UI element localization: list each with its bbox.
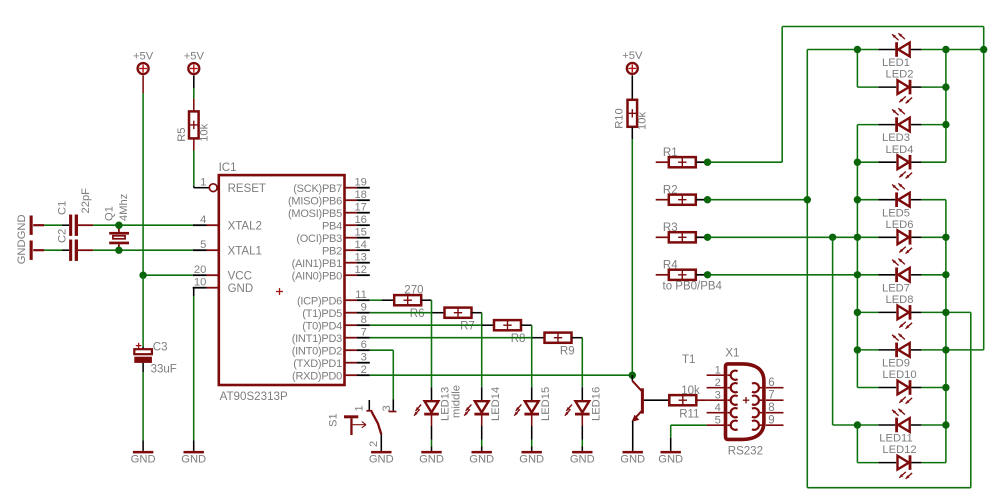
svg-text:9: 9 bbox=[361, 302, 367, 314]
junction LED9 left bbox=[854, 346, 861, 353]
wire LED1 row right bbox=[921, 49, 983, 51]
wire LED11 row bbox=[857, 424, 946, 426]
svg-text:1: 1 bbox=[715, 365, 721, 377]
svg-text:GND: GND bbox=[620, 454, 645, 466]
svg-text:LED15: LED15 bbox=[540, 387, 552, 421]
svg-text:XTAL2: XTAL2 bbox=[228, 220, 262, 232]
junction LED1 right bbox=[942, 46, 949, 53]
svg-text:GND: GND bbox=[131, 454, 156, 466]
svg-text:R11: R11 bbox=[679, 409, 699, 421]
svg-text:+5V: +5V bbox=[133, 50, 154, 62]
svg-text:LED7: LED7 bbox=[882, 282, 910, 294]
IC1 pin 5 XTAL1 bbox=[193, 239, 262, 257]
svg-text:8: 8 bbox=[768, 402, 774, 414]
svg-text:R5: R5 bbox=[176, 127, 188, 141]
LED10 bbox=[878, 369, 921, 404]
svg-text:5: 5 bbox=[715, 415, 721, 427]
power +5V P3 bbox=[622, 50, 643, 100]
svg-text:(TXD)PD1: (TXD)PD1 bbox=[293, 358, 342, 370]
wire R5 to RESET bbox=[194, 151, 209, 188]
svg-text:12: 12 bbox=[354, 264, 366, 276]
svg-text:17: 17 bbox=[354, 202, 366, 214]
junction VCC node bbox=[139, 272, 146, 279]
svg-text:RS232: RS232 bbox=[728, 445, 763, 457]
LED13 middle bbox=[414, 385, 463, 451]
svg-text:GND: GND bbox=[419, 454, 444, 466]
X1 pin 4 bbox=[707, 402, 738, 417]
wire R6 to LED13 bbox=[421, 300, 431, 387]
resistor R4 bbox=[656, 260, 723, 293]
svg-text:19: 19 bbox=[354, 177, 366, 189]
LED4 bbox=[878, 144, 921, 179]
svg-text:270: 270 bbox=[404, 284, 423, 296]
wire GND to C1 bbox=[44, 224, 69, 226]
wire pair1 left link bbox=[856, 50, 858, 88]
IC1 pin 16 PB4 bbox=[322, 214, 370, 232]
IC1 pin 17 (MOSI)PB5 bbox=[288, 202, 370, 220]
junction LED6 left bbox=[854, 234, 861, 241]
svg-text:R7: R7 bbox=[460, 320, 475, 332]
svg-text:GND: GND bbox=[16, 214, 28, 239]
svg-text:3: 3 bbox=[381, 405, 393, 411]
svg-text:6: 6 bbox=[361, 339, 367, 351]
ground GND under IC bbox=[184, 451, 204, 454]
capacitor C2 bbox=[56, 229, 78, 261]
svg-text:IC1: IC1 bbox=[219, 162, 237, 174]
svg-text:4: 4 bbox=[200, 214, 206, 226]
ground GND under C3 bbox=[133, 451, 153, 454]
svg-text:1: 1 bbox=[200, 177, 206, 189]
junction LED7 right bbox=[942, 271, 949, 278]
svg-text:3: 3 bbox=[715, 390, 721, 402]
LED8 bbox=[878, 294, 921, 329]
svg-text:LED1: LED1 bbox=[882, 57, 910, 69]
LED11 bbox=[878, 409, 921, 445]
ground GND under S1 bbox=[371, 451, 391, 454]
resistor R5 bbox=[176, 99, 211, 151]
junction after R4 bbox=[704, 271, 711, 278]
IC1 pin 2 (RXD)PD0 bbox=[292, 364, 370, 382]
svg-text:(INT1)PD3: (INT1)PD3 bbox=[292, 333, 342, 345]
LED6 bbox=[878, 219, 921, 254]
wire LED5 row bbox=[857, 199, 946, 201]
IC1 pin 12 (AIN0)PB0 bbox=[292, 264, 370, 282]
svg-text:7: 7 bbox=[361, 327, 367, 339]
svg-text:(INT0)PD2: (INT0)PD2 bbox=[292, 345, 342, 357]
wire pin2 RXD row to T1 node bbox=[370, 374, 633, 376]
svg-text:middle: middle bbox=[451, 385, 463, 418]
wire R10 to T1 node bbox=[631, 127, 633, 375]
wire LED1 row left bbox=[807, 49, 878, 51]
svg-text:to PB0/PB4: to PB0/PB4 bbox=[663, 281, 723, 293]
resistor R9 bbox=[545, 333, 575, 358]
wire VCC node to C3 bbox=[142, 275, 144, 346]
ground GND under LED13 bbox=[421, 451, 441, 454]
LED15 bbox=[514, 387, 552, 451]
X1 pin 6 bbox=[752, 377, 784, 392]
ground GND under X1 bbox=[661, 451, 681, 454]
svg-text:+5V: +5V bbox=[622, 50, 643, 62]
junction after R1 bbox=[704, 159, 711, 166]
junction after R3 bbox=[704, 234, 711, 241]
wire left bus LED3-LED10 bbox=[856, 125, 858, 388]
ground GND under LED14 bbox=[472, 451, 492, 454]
wire pin6 to S1 bbox=[370, 350, 394, 411]
svg-text:C2: C2 bbox=[56, 229, 68, 243]
wire LED2 row right bbox=[921, 86, 946, 88]
svg-text:LED11: LED11 bbox=[879, 433, 912, 445]
svg-text:(MISO)PB6: (MISO)PB6 bbox=[288, 195, 342, 207]
wire C3 to ground bbox=[142, 363, 144, 451]
svg-text:(T1)PD5: (T1)PD5 bbox=[302, 308, 342, 320]
svg-text:R8: R8 bbox=[511, 333, 526, 345]
ground GND under LED15 bbox=[522, 451, 542, 454]
svg-text:(OCI)PB3: (OCI)PB3 bbox=[296, 233, 342, 245]
svg-text:R6: R6 bbox=[410, 308, 425, 320]
svg-text:R3: R3 bbox=[663, 222, 678, 234]
ground symbol for C1 bbox=[16, 214, 44, 239]
wire pin7 to R9 bbox=[370, 337, 545, 339]
svg-text:LED14: LED14 bbox=[490, 387, 502, 421]
wire R2 riser bbox=[708, 50, 808, 488]
LED1 bbox=[878, 33, 921, 69]
wire R4 row to LED column bbox=[708, 274, 858, 276]
X1 pin 1 bbox=[707, 365, 738, 380]
svg-text:XTAL1: XTAL1 bbox=[228, 245, 262, 257]
svg-text:(ICP)PD6: (ICP)PD6 bbox=[297, 295, 342, 307]
X1 pin 3 bbox=[707, 390, 738, 405]
svg-text:10k: 10k bbox=[636, 112, 648, 130]
svg-text:R4: R4 bbox=[663, 260, 678, 272]
junction LED9 right bbox=[942, 346, 949, 353]
svg-text:+5V: +5V bbox=[184, 50, 205, 62]
svg-text:LED4: LED4 bbox=[886, 144, 914, 156]
wire R7 to LED14 bbox=[472, 313, 482, 388]
junction LED11 left bbox=[854, 421, 861, 428]
svg-text:(RXD)PD0: (RXD)PD0 bbox=[292, 370, 342, 382]
LED5 bbox=[878, 183, 921, 219]
wire R11 to X1 pin3 bbox=[696, 399, 706, 401]
svg-text:10k: 10k bbox=[199, 123, 211, 141]
LED9 bbox=[878, 334, 921, 370]
wire right bus LED1-LED4 bbox=[945, 50, 947, 163]
ground GND under LED16 bbox=[572, 451, 592, 454]
wire LED3 row bbox=[857, 124, 946, 126]
svg-text:2: 2 bbox=[715, 377, 721, 389]
svg-text:PB2: PB2 bbox=[322, 245, 342, 257]
IC1 pin 6 (INT0)PD2 bbox=[292, 339, 370, 357]
resistor R6 270 bbox=[394, 284, 424, 320]
wire +5V P2 to R5 bbox=[193, 88, 195, 99]
wire IC GND pin to ground bbox=[193, 288, 195, 451]
svg-text:R1: R1 bbox=[663, 147, 678, 159]
svg-text:(T0)PD4: (T0)PD4 bbox=[302, 320, 342, 332]
svg-text:LED2: LED2 bbox=[886, 69, 914, 81]
svg-text:4: 4 bbox=[715, 402, 721, 414]
svg-text:C1: C1 bbox=[56, 201, 68, 215]
svg-text:GND: GND bbox=[519, 454, 544, 466]
svg-text:AT90S2313P: AT90S2313P bbox=[220, 390, 288, 403]
junction LED5 left bbox=[854, 196, 861, 203]
IC1 pin 13 (AIN1)PB1 bbox=[292, 252, 370, 270]
IC1 pin 14 PB2 bbox=[322, 239, 370, 257]
wire LED10 row bbox=[857, 387, 946, 389]
svg-text:LED16: LED16 bbox=[591, 387, 603, 421]
op-amp IC1 AT90S2313P microcontroller bbox=[219, 162, 345, 403]
ground symbol for C2 bbox=[16, 239, 44, 264]
wire LED12 row bbox=[857, 462, 946, 464]
wire R3 row to LED column bbox=[708, 236, 858, 238]
wire pin11 to R6 bbox=[370, 299, 394, 301]
svg-text:(AIN1)PB1: (AIN1)PB1 bbox=[292, 258, 342, 270]
IC1 pin 11 (ICP)PD6 bbox=[297, 289, 370, 307]
LED16 bbox=[565, 387, 603, 451]
resistor R10 10k bbox=[613, 100, 648, 130]
svg-text:T1: T1 bbox=[682, 354, 695, 366]
svg-text:GND: GND bbox=[658, 454, 683, 466]
junction LED7 left bbox=[854, 271, 861, 278]
wire +5V P1 to VCC node bbox=[142, 93, 144, 275]
wire R8 to LED15 bbox=[521, 325, 532, 387]
wire LED9 row bbox=[857, 349, 983, 351]
IC1 pin 15 (OCI)PB3 bbox=[296, 227, 369, 245]
wire right outer bus bbox=[983, 27, 985, 350]
svg-text:18: 18 bbox=[354, 189, 366, 201]
svg-text:LED5: LED5 bbox=[882, 207, 910, 219]
svg-text:33uF: 33uF bbox=[151, 363, 177, 375]
junction LED8 right bbox=[942, 309, 949, 316]
junction after R2 bbox=[704, 196, 711, 203]
svg-text:9: 9 bbox=[768, 415, 774, 427]
wire LED4 row bbox=[857, 161, 946, 163]
svg-text:(SCK)PB7: (SCK)PB7 bbox=[293, 183, 342, 195]
IC1 pin 4 XTAL2 bbox=[193, 214, 262, 232]
svg-text:5: 5 bbox=[200, 239, 206, 251]
svg-text:10: 10 bbox=[194, 277, 206, 289]
svg-text:S1: S1 bbox=[328, 413, 340, 427]
resistor R2 bbox=[656, 184, 705, 204]
svg-text:LED6: LED6 bbox=[886, 219, 914, 231]
X1 pin 2 bbox=[707, 377, 738, 392]
resistor R8 bbox=[494, 320, 525, 345]
junction crystal bottom bbox=[115, 247, 122, 254]
wire R1 riser bbox=[708, 27, 984, 163]
X1 pin 8 bbox=[752, 402, 784, 417]
ground GND under T1 bbox=[623, 451, 643, 454]
svg-text:15: 15 bbox=[354, 227, 366, 239]
svg-text:LED8: LED8 bbox=[886, 294, 914, 306]
junction LED6 right bbox=[942, 234, 949, 241]
junction LED8 left bbox=[854, 309, 861, 316]
svg-text:LED10: LED10 bbox=[882, 369, 916, 381]
wire LED8 row bbox=[857, 311, 970, 313]
resistor R3 bbox=[656, 222, 705, 242]
wire GND to C2 bbox=[44, 249, 69, 251]
IC1 pin 9 (T1)PD5 bbox=[302, 302, 370, 320]
power +5V P1 bbox=[133, 50, 154, 93]
svg-text:PB4: PB4 bbox=[322, 220, 342, 232]
LED12 bbox=[878, 444, 921, 479]
svg-text:Q1: Q1 bbox=[104, 206, 116, 221]
crystal Q1 4Mhz bbox=[104, 193, 130, 250]
junction R3 branch bbox=[829, 234, 836, 241]
LED2 bbox=[878, 69, 921, 104]
connector X1 RS232 bbox=[725, 348, 764, 458]
LED7 bbox=[878, 259, 921, 295]
svg-text:16: 16 bbox=[354, 214, 366, 226]
svg-text:1: 1 bbox=[354, 405, 366, 411]
IC1 pin 1 RESET bubble bbox=[200, 177, 266, 195]
svg-text:6: 6 bbox=[768, 377, 774, 389]
svg-text:2: 2 bbox=[361, 364, 367, 376]
svg-text:2: 2 bbox=[368, 441, 380, 447]
svg-text:LED9: LED9 bbox=[882, 358, 910, 370]
svg-text:13: 13 bbox=[354, 252, 366, 264]
switch S1 bbox=[328, 400, 397, 451]
wire LED2 row left bbox=[857, 86, 878, 88]
resistor R1 bbox=[656, 147, 705, 167]
junction LED11 right bbox=[942, 421, 949, 428]
wire LED6 row bbox=[857, 236, 946, 238]
IC1 pin 18 (MISO)PB6 bbox=[288, 189, 370, 207]
wire bottom return bbox=[807, 312, 971, 487]
power +5V P2 bbox=[184, 50, 205, 88]
junction LED1 outer bbox=[980, 46, 987, 53]
wire pair6 left link bbox=[856, 425, 858, 463]
junction LED10 right bbox=[942, 384, 949, 391]
svg-text:GND: GND bbox=[228, 283, 254, 295]
capacitor C1 22pF bbox=[56, 188, 92, 236]
wire C2 to XTAL1 net bbox=[78, 249, 193, 251]
X1 pin 9 bbox=[752, 415, 784, 430]
svg-text:R10: R10 bbox=[613, 108, 625, 129]
wire X1 pin5 to ground bbox=[671, 425, 707, 451]
junction LED4 left bbox=[854, 159, 861, 166]
svg-text:22pF: 22pF bbox=[80, 188, 92, 214]
svg-text:R9: R9 bbox=[560, 345, 575, 357]
svg-text:20: 20 bbox=[194, 264, 206, 276]
svg-text:8: 8 bbox=[361, 314, 367, 326]
svg-text:10k: 10k bbox=[681, 385, 700, 397]
svg-text:7: 7 bbox=[768, 390, 774, 402]
junction LED1 left bbox=[854, 46, 861, 53]
IC1 pin 8 (T0)PD4 bbox=[302, 314, 370, 332]
svg-text:(AIN0)PB0: (AIN0)PB0 bbox=[292, 270, 342, 282]
LED14 bbox=[464, 387, 502, 451]
IC1 pin 20 VCC bbox=[193, 264, 252, 282]
wire VCC row bbox=[143, 274, 193, 276]
svg-text:X1: X1 bbox=[725, 348, 739, 360]
resistor R7 bbox=[445, 308, 475, 333]
svg-text:GND: GND bbox=[469, 454, 494, 466]
svg-text:14: 14 bbox=[354, 239, 366, 251]
IC1 pin 7 (INT1)PD3 bbox=[292, 327, 370, 345]
IC1 pin 10 GND bbox=[193, 277, 253, 295]
wire R3 branch down to LED11 row bbox=[833, 237, 858, 425]
IC1 pin 19 (SCK)PB7 bbox=[293, 177, 370, 195]
transistor T1 bbox=[632, 354, 696, 451]
svg-text:GND: GND bbox=[369, 454, 394, 466]
LED3 bbox=[878, 108, 921, 144]
wire LED7 row bbox=[857, 274, 946, 276]
IC1 pin 3 (TXD)PD1 bbox=[293, 352, 370, 370]
svg-text:4Mhz: 4Mhz bbox=[118, 193, 130, 221]
svg-text:LED12: LED12 bbox=[882, 444, 916, 456]
X1 pin 5 bbox=[707, 415, 738, 430]
junction LED2 right bbox=[942, 83, 949, 90]
X1 pin 7 bbox=[752, 390, 784, 405]
svg-text:C3: C3 bbox=[153, 341, 168, 353]
svg-text:GND: GND bbox=[181, 454, 206, 466]
junction LED3 right bbox=[942, 121, 949, 128]
svg-text:LED3: LED3 bbox=[882, 132, 910, 144]
svg-text:GND: GND bbox=[570, 454, 595, 466]
svg-text:R2: R2 bbox=[663, 184, 678, 196]
svg-text:RESET: RESET bbox=[228, 183, 266, 195]
junction T1 collector node bbox=[629, 372, 636, 379]
svg-text:3: 3 bbox=[361, 352, 367, 364]
svg-text:GND: GND bbox=[16, 239, 28, 264]
wire pin8 to R8 bbox=[370, 324, 494, 326]
wire pin9 to R7 bbox=[370, 312, 445, 314]
junction R2 riser bbox=[804, 196, 811, 203]
wire C1 to XTAL2 net bbox=[78, 224, 193, 226]
resistor R11 10k bbox=[669, 385, 700, 421]
svg-text:VCC: VCC bbox=[228, 270, 252, 282]
svg-text:11: 11 bbox=[355, 289, 367, 301]
capacitor C3 33uF bbox=[134, 341, 177, 375]
wire right bus LED5-LED12 bbox=[945, 200, 947, 463]
svg-text:(MOSI)PB5: (MOSI)PB5 bbox=[288, 208, 342, 220]
junction crystal top bbox=[115, 222, 122, 229]
wire R9 to LED16 bbox=[572, 338, 583, 388]
